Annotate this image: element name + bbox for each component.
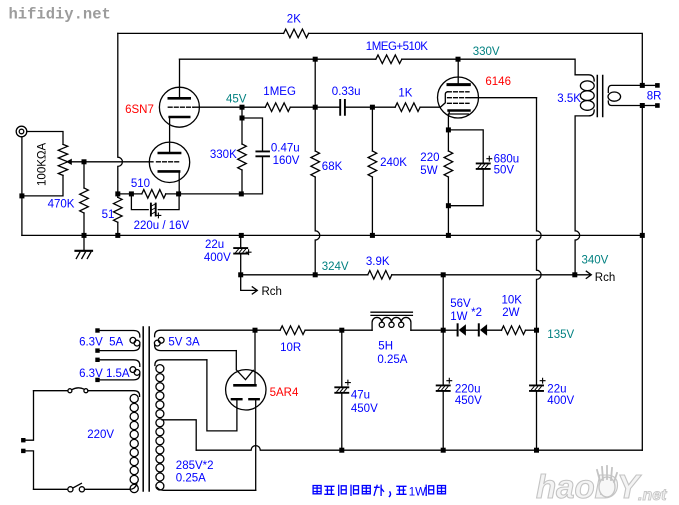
OPT primary winding	[580, 81, 594, 110]
+ mark 220u/16V	[156, 213, 161, 218]
diode D1 56V	[457, 324, 459, 335]
svg-text:56V: 56V	[450, 298, 471, 310]
svg-text:5W: 5W	[420, 165, 437, 177]
wire ground rail	[22, 234, 642, 236]
V2 cathode	[159, 170, 179, 173]
wire top NFB rail left	[118, 32, 284, 34]
svg-text:450V: 450V	[351, 403, 378, 415]
wire rail to zeners	[442, 275, 444, 330]
V1 grid (dashed)	[168, 106, 193, 108]
resistor 10K	[502, 326, 526, 335]
svg-text:220u / 16V: 220u / 16V	[134, 220, 190, 232]
wire 5AR4 cathode to B+	[254, 330, 256, 385]
capacitor 0.47u plates	[256, 151, 269, 156]
junction rail 22u	[238, 272, 243, 277]
junction 51 top	[115, 191, 120, 196]
resistor 330K	[241, 118, 243, 144]
junction rail 220u450	[441, 272, 446, 277]
junction 220u left	[129, 191, 134, 196]
svg-text:10K: 10K	[502, 294, 523, 306]
wire choke to zener node	[411, 329, 443, 331]
wire 6146 cathode lead	[447, 114, 449, 151]
resistor 68K	[314, 59, 316, 151]
junction 240K top	[370, 105, 375, 110]
terminal 6.3V-1.5A a	[95, 358, 99, 362]
svg-text:160V: 160V	[273, 155, 300, 167]
OPT primary lead bottom	[575, 110, 594, 275]
wire to 0.47u top	[242, 118, 263, 151]
wire jack tip to pot top	[27, 132, 63, 145]
svg-text:2K: 2K	[287, 14, 301, 26]
svg-text:0.25A: 0.25A	[176, 473, 206, 485]
svg-text:3.9K: 3.9K	[366, 256, 390, 268]
resistor 1K	[395, 103, 420, 112]
+ mark 680u	[487, 156, 492, 161]
junction 220-5W/680u	[446, 203, 451, 208]
svg-text:1W: 1W	[409, 486, 426, 498]
svg-text:285V*2: 285V*2	[176, 460, 214, 472]
junction 47u top	[339, 328, 344, 333]
V1 plate	[169, 97, 190, 100]
wire 5AR4 left plate to HV top	[207, 360, 237, 431]
wire NFB vertical (2K to cathode) with hop	[118, 33, 123, 194]
svg-text:6146: 6146	[485, 76, 511, 88]
wire 340V rail	[241, 274, 575, 276]
junction bot 47u	[339, 448, 344, 453]
resistor 3.9K	[368, 271, 392, 280]
diode D2 56V	[478, 324, 480, 335]
svg-text:8R: 8R	[647, 91, 662, 103]
capacitor 220u 450V	[442, 330, 444, 385]
svg-text:6.3V 1.5A: 6.3V 1.5A	[79, 368, 130, 380]
terminal 6.3V-5A b	[95, 348, 99, 352]
PT winding HV 285Vx2	[155, 360, 207, 366]
svg-text:330K: 330K	[210, 149, 237, 161]
resistor 2K	[284, 29, 309, 38]
wire 6146 plate lead	[457, 59, 459, 83]
svg-text:220: 220	[420, 152, 439, 164]
OPT secondary winding	[608, 92, 621, 101]
tube 5AR4 envelope	[226, 370, 266, 410]
wire cathode line left	[118, 193, 142, 195]
wire top NFB rail right	[309, 33, 643, 83]
wire 22u right bottom	[536, 392, 538, 450]
wire 10K to 135V	[526, 329, 537, 331]
capacitor 220u/16V plates	[151, 204, 156, 216]
junction OPT sec bottom	[640, 103, 645, 108]
junction 330K top	[240, 116, 245, 121]
+ mark 22u left	[246, 250, 251, 255]
junction gnd 51	[115, 233, 120, 238]
6146 grid rows (dashed)	[448, 92, 470, 104]
svg-text:22u: 22u	[547, 384, 566, 396]
resistor 10R	[280, 326, 305, 335]
svg-text:10R: 10R	[280, 342, 301, 354]
+ mark 22u right	[540, 378, 545, 383]
junction rail 68K	[313, 272, 318, 277]
input jack J1	[16, 126, 27, 137]
6146 grid bracket	[440, 92, 448, 107]
capacitor 220u/16V loop right	[158, 194, 179, 210]
+ mark 47u	[346, 380, 351, 385]
junction 330K bottom	[239, 191, 244, 196]
wire sec top stub	[645, 84, 655, 86]
svg-text:470K: 470K	[48, 199, 75, 211]
5AR4 filament	[237, 370, 254, 380]
svg-text:450V: 450V	[455, 395, 482, 407]
wire D1-D2	[466, 329, 478, 331]
junction node-A top	[313, 57, 318, 62]
pot wiper arrow	[66, 159, 72, 165]
svg-text:100KΩA: 100KΩA	[37, 143, 49, 186]
junction gnd 470K	[82, 233, 87, 238]
svg-text:5H: 5H	[378, 340, 393, 352]
wire mains upper	[26, 391, 34, 441]
wire sec bottom stub	[645, 105, 655, 107]
wire 10R to choke	[305, 329, 372, 331]
wire 5V bottom lead to filament	[235, 351, 237, 370]
choke 5H core	[371, 312, 412, 315]
junction gnd 22u	[239, 233, 244, 238]
svg-text:50V: 50V	[494, 164, 515, 176]
junction gnd right	[640, 233, 645, 238]
wire V1 plate rail	[180, 58, 376, 60]
wire 5V-top to 10R	[255, 329, 280, 331]
svg-text:330V: 330V	[473, 46, 500, 58]
capacitor 220u/16V loop left	[131, 194, 148, 210]
wire wiper to V2 grid	[72, 161, 153, 163]
junction gnd 220-5W	[446, 233, 451, 238]
junction bot 22u	[534, 448, 539, 453]
svg-text:3.5K: 3.5K	[557, 93, 581, 105]
PT winding 5V 3A	[155, 330, 255, 337]
wire V1 cathode to V2 plate	[169, 118, 171, 152]
svg-text:68K: 68K	[322, 161, 343, 173]
tube 6146 envelope	[438, 77, 479, 118]
svg-text:1MEG: 1MEG	[263, 86, 296, 98]
arrow Rch right	[575, 271, 592, 278]
junction jack shield	[19, 193, 24, 198]
junction 45V node	[240, 105, 245, 110]
junction 5AR4 output	[253, 328, 258, 333]
svg-text:.net: .net	[638, 487, 667, 504]
svg-text:240K: 240K	[380, 157, 407, 169]
resistor 470K	[83, 162, 85, 188]
resistor 240K	[371, 107, 373, 151]
wire V1 plate lead	[179, 59, 181, 97]
svg-text:*2: *2	[471, 307, 482, 319]
junction 135V node	[534, 328, 539, 333]
PT winding 220V primary	[88, 391, 140, 397]
svg-text:220u: 220u	[455, 384, 481, 396]
ground symbol	[83, 235, 85, 250]
junction gnd 240K	[370, 233, 375, 238]
wire 45V node down	[241, 107, 243, 118]
wire bottom rail with hop	[196, 446, 642, 451]
OPT primary lead top	[575, 75, 594, 81]
svg-text:5AR4: 5AR4	[270, 387, 299, 399]
wire 6146 g2 out	[471, 97, 537, 99]
junction node-A mid	[313, 105, 318, 110]
potentiometer 100K-A	[58, 144, 67, 175]
resistor 1MEG	[265, 103, 290, 112]
svg-text:45V: 45V	[226, 93, 247, 105]
PT winding 6.3V 5A	[100, 331, 140, 338]
svg-text:400V: 400V	[547, 395, 574, 407]
terminal 6.3V-5A a	[95, 328, 99, 332]
note: resistors are 1W unless noted	[313, 485, 445, 498]
wire V2 cathode lead	[178, 172, 180, 194]
svg-text:1W: 1W	[450, 311, 467, 323]
5AR4 cathode bar	[235, 384, 256, 387]
terminal 6.3V-1.5A b	[95, 378, 99, 382]
svg-text:135V: 135V	[547, 329, 574, 341]
junction choke out	[441, 328, 446, 333]
capacitor 680u	[477, 163, 490, 169]
tube V1 6SN7 upper triode envelope	[159, 87, 199, 127]
terminal 8R bottom	[655, 103, 660, 108]
svg-text:5V 3A: 5V 3A	[168, 337, 200, 349]
wire 680u bottom	[448, 170, 483, 206]
5AR4 plate right	[249, 398, 258, 400]
wire g2 column with hops	[537, 98, 542, 331]
svg-text:400V: 400V	[204, 252, 231, 264]
mains switch lower	[68, 483, 85, 492]
junction 6146 plate node	[456, 57, 461, 62]
wire cathode to 680u	[448, 130, 483, 163]
wire OPT sec bottom to ground	[641, 108, 643, 450]
V2 grid (dashed)	[157, 161, 181, 163]
PT winding 6.3V 1.5A	[100, 360, 140, 367]
terminal mains L	[21, 438, 25, 442]
wire switch lower left	[34, 488, 68, 490]
wire switch upper left	[34, 390, 68, 392]
junction bot 220u	[441, 448, 446, 453]
5AR4 plate left	[232, 398, 242, 400]
6146 cathode	[449, 109, 470, 112]
terminal mains N	[21, 449, 25, 453]
V2 plate	[159, 152, 180, 155]
svg-text:1K: 1K	[398, 88, 412, 100]
wire 45V to 1MEG	[242, 106, 265, 108]
tube V2 6SN7 lower triode envelope	[149, 142, 189, 182]
wire 1K to 6146 g1	[420, 106, 440, 108]
V1 cathode	[170, 116, 190, 119]
choke 5H winding	[372, 317, 411, 330]
junction rail OPT	[572, 272, 577, 277]
capacitor 22u 400V (left)	[240, 235, 242, 247]
wire mains lower	[26, 451, 34, 489]
svg-text:0.33u: 0.33u	[332, 86, 361, 98]
capacitor 0.33u plates	[340, 100, 345, 115]
svg-text:0.25A: 0.25A	[377, 354, 407, 366]
+ mark 220u450	[447, 378, 452, 383]
resistor 51	[117, 194, 119, 197]
wire 135V to 22u	[536, 330, 538, 385]
svg-text:324V: 324V	[322, 261, 349, 273]
svg-text:6.3V 5A: 6.3V 5A	[79, 337, 123, 349]
OPT secondary top lead	[608, 85, 640, 92]
wire V1 grid to 45V node	[194, 106, 243, 108]
svg-text:47u: 47u	[351, 389, 370, 401]
PT core	[143, 327, 149, 491]
wire 5AR4 right plate to HV bottom	[255, 400, 257, 490]
capacitor 47u 450V	[341, 330, 343, 387]
arrow Rch left	[241, 275, 258, 294]
capacitor 22u 400V (right)	[530, 385, 543, 391]
mains switch upper	[68, 388, 88, 393]
OPT secondary bottom lead	[608, 101, 640, 106]
6146 plate	[448, 83, 469, 86]
svg-text:6SN7: 6SN7	[125, 104, 154, 116]
wire D2 to 10K	[487, 329, 501, 331]
junction OPT sec top	[640, 83, 645, 88]
svg-text:510: 510	[131, 178, 150, 190]
svg-text:0.47u: 0.47u	[271, 143, 300, 155]
wire pot bottom to ground	[22, 175, 63, 196]
wire 0.33u to 1K	[346, 106, 395, 108]
junction wiper/470K	[82, 159, 87, 164]
resistor 220 5W	[444, 151, 453, 177]
wire cathode line right	[166, 156, 263, 194]
wire jack shield down	[21, 137, 23, 236]
wire feedback rail to 6146 plate node	[402, 59, 575, 75]
wire 1MEG to 0.33u	[290, 106, 339, 108]
svg-text:22u: 22u	[205, 239, 224, 251]
svg-text:2W: 2W	[502, 307, 519, 319]
resistor 510	[142, 190, 166, 199]
junction V2 cathode	[176, 191, 181, 196]
svg-text:hifidiy.net: hifidiy.net	[9, 6, 111, 24]
PT HV center tap	[162, 420, 196, 450]
svg-text:1MEG+510K: 1MEG+510K	[366, 41, 428, 53]
wire B+ to D1	[443, 329, 456, 331]
svg-text:51: 51	[102, 209, 115, 221]
resistor 1MEG+510K	[376, 55, 402, 64]
svg-text:Rch: Rch	[595, 272, 615, 284]
svg-text:340V: 340V	[582, 255, 609, 267]
watermark haoDIY.net (bottom-right)	[536, 466, 667, 505]
OPT core	[597, 76, 602, 117]
junction 6146 cathode	[446, 127, 451, 132]
svg-text:Rch: Rch	[262, 286, 282, 298]
terminal 8R top	[655, 83, 660, 88]
svg-text:220V: 220V	[87, 429, 114, 441]
